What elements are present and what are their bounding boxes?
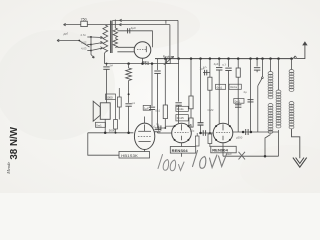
- svg-text:µ500: µ500: [236, 136, 243, 140]
- svg-text:Mende: Mende: [6, 162, 11, 175]
- svg-text:2µ: 2µ: [244, 90, 248, 94]
- svg-text:0m15: 0m15: [177, 116, 184, 120]
- svg-text:0m1: 0m1: [217, 85, 223, 89]
- svg-text:750: 750: [81, 18, 87, 22]
- svg-text:0m1: 0m1: [235, 99, 241, 103]
- svg-text:0m1: 0m1: [96, 123, 102, 127]
- svg-text:0m1s: 0m1s: [230, 85, 237, 89]
- svg-text:2.St: 2.St: [81, 33, 86, 37]
- svg-text:5000: 5000: [106, 95, 113, 99]
- svg-text:HB1S3K: HB1S3K: [121, 153, 138, 158]
- svg-text:4.03: 4.03: [81, 47, 87, 51]
- svg-text:0m1s: 0m1s: [177, 107, 184, 111]
- svg-text:38 N/W: 38 N/W: [9, 126, 20, 159]
- svg-text:4µF: 4µF: [131, 26, 136, 30]
- svg-text:50µ: 50µ: [190, 129, 195, 133]
- svg-text:0µ1: 0µ1: [155, 108, 160, 112]
- svg-text:1µF: 1µF: [144, 106, 149, 110]
- svg-text:1µ: 1µ: [156, 122, 159, 126]
- svg-text:4µF: 4µF: [214, 62, 219, 66]
- svg-text:µ1: µ1: [132, 101, 136, 105]
- svg-text:RENS04: RENS04: [172, 148, 189, 153]
- svg-text:3.02: 3.02: [81, 41, 87, 45]
- svg-text:CM2: CM2: [208, 108, 214, 112]
- svg-text:2µF: 2µF: [200, 66, 205, 70]
- svg-text:REN904: REN904: [212, 148, 228, 153]
